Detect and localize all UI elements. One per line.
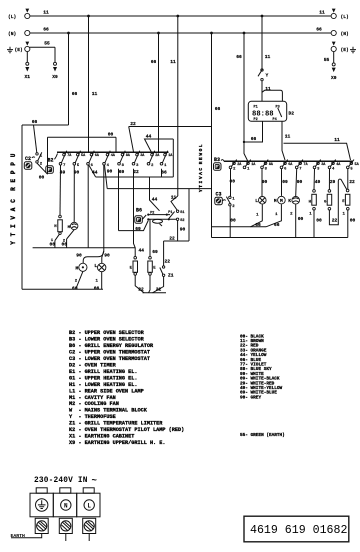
svg-text:W: W [198, 153, 204, 156]
svg-text:22: 22 [165, 258, 171, 264]
svg-text:C: C [198, 168, 204, 171]
svg-text:66: 66 [72, 285, 78, 291]
svg-text:Y: Y [198, 189, 204, 192]
svg-text:C: C [10, 199, 17, 203]
svg-text:~: ~ [92, 476, 97, 486]
svg-text:P2: P2 [254, 118, 258, 122]
svg-text:P: P [10, 162, 17, 166]
svg-text:I: I [10, 224, 17, 228]
svg-text:88:88: 88:88 [252, 110, 274, 118]
svg-text:22: 22 [169, 236, 175, 242]
svg-text:00: 00 [62, 242, 68, 248]
svg-text:D2 - OVEN TIMER: D2 - OVEN TIMER [69, 362, 117, 368]
svg-text:(E): (E) [15, 47, 23, 53]
svg-text:R: R [198, 161, 204, 164]
svg-text:P: P [10, 170, 17, 174]
svg-text:U: U [10, 153, 17, 157]
svg-text:B2: B2 [47, 157, 53, 163]
svg-text:L1 - REAR SIDE OVEN LAMP: L1 - REAR SIDE OVEN LAMP [69, 388, 144, 394]
svg-text:L: L [94, 263, 97, 269]
svg-text:M: M [274, 198, 277, 204]
svg-text:22: 22 [332, 217, 338, 223]
svg-text:I: I [198, 180, 204, 183]
svg-text:(L): (L) [8, 14, 16, 20]
svg-text:L: L [87, 502, 91, 509]
svg-text:Y: Y [10, 241, 17, 245]
svg-text:55: 55 [44, 41, 50, 47]
svg-text:00: 00 [350, 217, 356, 223]
svg-text:69: 69 [135, 226, 141, 232]
svg-text:(E): (E) [341, 47, 349, 53]
svg-text:11: 11 [285, 134, 291, 140]
svg-text:90: 90 [262, 179, 268, 185]
svg-text:44: 44 [152, 196, 158, 202]
svg-text:44: 44 [139, 248, 145, 254]
svg-text:66: 66 [274, 222, 280, 228]
svg-text:44: 44 [92, 170, 98, 176]
svg-text:11: 11 [92, 91, 98, 97]
svg-text:B6 - GRILL ENERGY REGULATOR: B6 - GRILL ENERGY REGULATOR [69, 343, 154, 349]
svg-text:22: 22 [138, 286, 144, 292]
svg-text:A: A [198, 172, 204, 175]
svg-text:(L): (L) [341, 14, 349, 20]
svg-text:EARTH: EARTH [11, 533, 26, 539]
svg-text:O: O [198, 148, 204, 151]
svg-text:66: 66 [94, 285, 100, 291]
svg-text:66: 66 [43, 27, 49, 33]
svg-text:66: 66 [251, 136, 257, 142]
svg-text:90- GREY: 90- GREY [240, 395, 261, 400]
svg-text:M: M [76, 265, 79, 271]
svg-text:P1: P1 [254, 105, 258, 109]
svg-text:90: 90 [297, 179, 303, 185]
svg-text:11: 11 [265, 54, 271, 60]
svg-text:X9: X9 [52, 74, 58, 80]
svg-text:D2: D2 [289, 111, 295, 117]
svg-text:90: 90 [107, 169, 113, 175]
svg-text:230-240V IN: 230-240V IN [34, 477, 88, 485]
svg-text:C3: C3 [215, 191, 221, 197]
svg-text:11: 11 [43, 10, 49, 16]
svg-text:V: V [198, 176, 204, 179]
svg-text:90: 90 [180, 227, 186, 233]
svg-text:90: 90 [76, 252, 82, 258]
svg-text:Z1: Z1 [168, 272, 174, 278]
svg-text:22: 22 [349, 179, 355, 185]
svg-text:69: 69 [119, 169, 125, 175]
svg-text:66: 66 [236, 54, 242, 60]
svg-text:66: 66 [72, 91, 78, 97]
svg-text:X9: X9 [331, 75, 337, 81]
svg-text:Y - THERMOFUSE: Y - THERMOFUSE [69, 414, 116, 420]
svg-text:T: T [10, 232, 17, 236]
svg-text:X9 - EARTHING UPPER/GRILL H. E: X9 - EARTHING UPPER/GRILL H. E. [69, 440, 166, 446]
svg-text:(N): (N) [341, 31, 349, 37]
svg-text:B6: B6 [136, 208, 142, 214]
svg-text:44: 44 [146, 133, 152, 139]
svg-text:S1: S1 [180, 211, 184, 215]
svg-text:C2: C2 [25, 156, 31, 162]
svg-text:W - MAINS TERMINAL BLOCK: W - MAINS TERMINAL BLOCK [69, 408, 148, 414]
svg-text:00: 00 [230, 218, 236, 224]
svg-text:H1 - LOWER HEATING EL.: H1 - LOWER HEATING EL. [69, 382, 138, 388]
svg-text:00: 00 [298, 216, 304, 222]
svg-text:M2 - COOLING FAN: M2 - COOLING FAN [69, 401, 119, 407]
svg-text:4619 619 01682: 4619 619 01682 [250, 524, 347, 537]
svg-text:E: E [198, 157, 204, 160]
svg-text:66: 66 [161, 169, 167, 175]
svg-text:66: 66 [215, 106, 221, 112]
svg-text:M: M [280, 198, 283, 204]
svg-text:L: L [255, 198, 258, 204]
svg-text:E: E [10, 179, 17, 183]
svg-text:55- GREEN (EARTH): 55- GREEN (EARTH) [240, 433, 285, 438]
svg-text:Y: Y [266, 73, 269, 79]
svg-text:(N): (N) [8, 31, 16, 37]
svg-text:49: 49 [315, 179, 321, 185]
svg-text:E1 - GRILL HEATING EL.: E1 - GRILL HEATING EL. [69, 369, 138, 375]
svg-text:K2 - OVEN THERMOSTAT PILOT LAM: K2 - OVEN THERMOSTAT PILOT LAMP (RED) [69, 427, 184, 433]
svg-text:11: 11 [319, 10, 325, 16]
svg-text:R: R [10, 187, 17, 191]
svg-text:B3: B3 [214, 157, 220, 163]
svg-text:G1 - UPPER HEATING EL.: G1 - UPPER HEATING EL. [69, 375, 138, 381]
svg-text:66: 66 [151, 59, 157, 65]
svg-text:L: L [198, 144, 204, 147]
svg-text:S2: S2 [180, 219, 184, 223]
svg-text:29: 29 [330, 179, 336, 185]
svg-text:09: 09 [282, 179, 288, 185]
svg-text:P1: P1 [168, 211, 172, 215]
svg-text:00: 00 [50, 242, 56, 248]
svg-text:N: N [64, 502, 68, 509]
svg-text:66: 66 [316, 27, 322, 33]
svg-text:11: 11 [265, 86, 271, 92]
svg-text:P2: P2 [150, 212, 154, 216]
svg-text:A: A [10, 207, 17, 211]
svg-text:22: 22 [156, 286, 162, 292]
svg-text:55: 55 [324, 57, 330, 63]
svg-text:22: 22 [130, 121, 136, 127]
svg-text:C3 - LOWER OVEN THERMOSTAT: C3 - LOWER OVEN THERMOSTAT [69, 356, 150, 362]
svg-text:X1: X1 [25, 74, 31, 80]
svg-text:C2 - UPPER OVEN THERMOSTAT: C2 - UPPER OVEN THERMOSTAT [69, 349, 150, 355]
svg-text:11: 11 [171, 195, 177, 201]
svg-text:00: 00 [108, 131, 114, 137]
svg-text:P4: P4 [273, 118, 277, 122]
svg-text:69: 69 [152, 249, 158, 255]
svg-text:M1 - CAVITY FAN: M1 - CAVITY FAN [69, 395, 116, 401]
svg-text:B2 - UPPER OVEN SELECTOR: B2 - UPPER OVEN SELECTOR [69, 330, 145, 336]
svg-text:V: V [10, 216, 17, 220]
svg-text:11: 11 [170, 59, 176, 65]
svg-text:90: 90 [104, 252, 110, 258]
svg-text:00: 00 [39, 174, 45, 180]
svg-text:66: 66 [32, 119, 38, 125]
svg-text:00: 00 [316, 217, 322, 223]
svg-text:K: K [288, 198, 291, 204]
svg-text:X1 - EARTHING CABINET: X1 - EARTHING CABINET [69, 434, 134, 440]
svg-text:Z1 - GRILL TEMPERATURE LIMITER: Z1 - GRILL TEMPERATURE LIMITER [69, 421, 163, 427]
svg-text:T: T [198, 185, 204, 188]
svg-text:B3 - LOWER OVEN SELECTOR: B3 - LOWER OVEN SELECTOR [69, 337, 145, 343]
svg-text:11: 11 [334, 137, 340, 143]
svg-text:22: 22 [133, 169, 139, 175]
